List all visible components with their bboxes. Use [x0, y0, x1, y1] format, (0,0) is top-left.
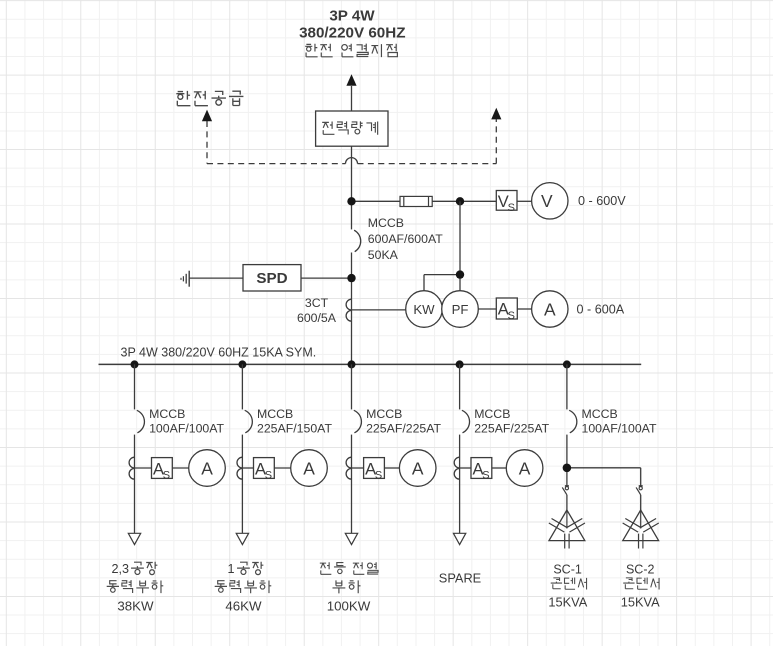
svg-text:0 - 600V: 0 - 600V [578, 194, 626, 208]
svg-text:46KW: 46KW [225, 598, 262, 613]
svg-text:SPD: SPD [256, 270, 287, 287]
svg-text:0 - 600A: 0 - 600A [577, 302, 625, 316]
svg-text:3P 4W: 3P 4W [329, 7, 375, 24]
svg-text:MCCB: MCCB [368, 216, 404, 230]
svg-text:KW: KW [413, 302, 435, 317]
svg-text:225AF/225AT: 225AF/225AT [366, 422, 441, 436]
svg-text:MCCB: MCCB [582, 407, 618, 421]
svg-text:SC-2: SC-2 [626, 562, 655, 576]
svg-text:1: 1 [228, 562, 235, 576]
svg-text:S: S [508, 202, 515, 214]
svg-text:S: S [265, 470, 272, 482]
svg-text:S: S [482, 470, 489, 482]
svg-text:S: S [163, 470, 170, 482]
svg-text:A: A [303, 458, 315, 478]
svg-text:225AF/225AT: 225AF/225AT [474, 422, 549, 436]
svg-text:A: A [412, 458, 424, 478]
svg-text:3CT: 3CT [305, 296, 329, 310]
svg-text:100AF/100AT: 100AF/100AT [149, 422, 224, 436]
svg-text:SPARE: SPARE [439, 571, 481, 586]
svg-text:S: S [508, 310, 515, 322]
svg-text:A: A [519, 458, 531, 478]
svg-text:3P 4W 380/220V 60HZ 15KA SYM.: 3P 4W 380/220V 60HZ 15KA SYM. [121, 346, 317, 360]
svg-text:MCCB: MCCB [474, 407, 510, 421]
svg-text:SC-1: SC-1 [553, 562, 582, 576]
svg-text:100KW: 100KW [327, 598, 371, 613]
svg-text:225AF/150AT: 225AF/150AT [257, 422, 332, 436]
svg-text:MCCB: MCCB [257, 407, 293, 421]
svg-text:15KVA: 15KVA [621, 594, 660, 609]
svg-text:600AF/600AT: 600AF/600AT [368, 232, 443, 246]
svg-text:2,3: 2,3 [112, 562, 130, 576]
svg-text:S: S [375, 470, 382, 482]
svg-text:A: A [201, 458, 213, 478]
svg-text:MCCB: MCCB [366, 407, 402, 421]
svg-text:MCCB: MCCB [149, 407, 185, 421]
svg-text:38KW: 38KW [117, 598, 154, 613]
svg-text:380/220V 60HZ: 380/220V 60HZ [299, 24, 405, 41]
svg-text:15KVA: 15KVA [548, 594, 587, 609]
svg-text:A: A [544, 299, 556, 319]
svg-text:50KA: 50KA [368, 248, 399, 262]
svg-text:100AF/100AT: 100AF/100AT [582, 422, 657, 436]
svg-text:600/5A: 600/5A [297, 311, 337, 325]
svg-text:V: V [541, 191, 553, 211]
svg-text:PF: PF [452, 302, 469, 317]
